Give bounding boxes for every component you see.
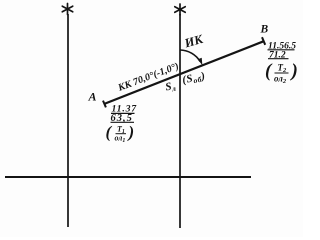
svg-text:(: ( [106,123,113,142]
svg-text:(: ( [265,61,273,82]
horizontal parallel line [5,176,251,178]
svg-text:В: В [260,24,269,36]
svg-text:): ) [290,61,298,82]
svg-text:): ) [127,123,135,142]
tick mark at B [262,37,265,45]
meridian line 2 [179,14,181,228]
svg-text:Т2: Т2 [278,63,288,75]
tick mark at A [103,101,106,108]
course line A-B [104,41,264,104]
meridian line 1 [67,14,69,227]
star symbol on meridian 1 [62,4,72,15]
svg-text:ИК: ИК [182,31,206,50]
star symbol on meridian 2 [175,4,185,15]
course angle arc with arrow (IK) [180,50,200,62]
svg-text:ол2: ол2 [274,74,287,86]
svg-text:ол1: ол1 [115,134,126,145]
label (T1/ol1) at A [106,123,135,145]
svg-text:А: А [88,90,97,104]
svg-text:Sл: Sл [164,80,176,95]
label (T2/ol2) at B [265,61,298,86]
